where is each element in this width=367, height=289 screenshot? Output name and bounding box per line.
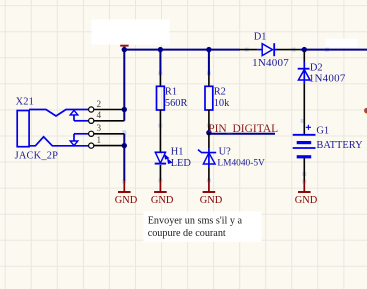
svg-text:560R: 560R [165, 98, 188, 109]
diode D1 left pin stub [257, 49, 262, 51]
svg-text:coupure de courant: coupure de courant [148, 228, 226, 239]
pin 3 wire [94, 133, 125, 135]
resistor R2 body [205, 86, 213, 110]
ground GND (battery) wire to symbol [303, 181, 305, 193]
ground GND (U?) wire to symbol [208, 181, 210, 193]
battery G1 plate long 1 [293, 134, 316, 136]
white erased rectangle top-right [326, 39, 358, 48]
svg-text:Envoyer un sms s'il y a: Envoyer un sms s'il y a [148, 215, 243, 226]
note white background [144, 212, 262, 243]
U? bottom pin [208, 168, 210, 181]
resistor R1 body [157, 86, 165, 110]
diode D2 body (pointing up) [298, 70, 310, 80]
ground GND (U?) bar [203, 191, 216, 193]
svg-text:3: 3 [97, 123, 102, 133]
junction C (rail/R2) [206, 47, 211, 52]
no-ERC red bar on node [120, 45, 128, 47]
wire: +V rail horizontal y=49.6 [123, 49, 367, 51]
svg-text:1: 1 [97, 135, 102, 145]
battery G1 plate short 2 [297, 155, 312, 158]
svg-text:PIN_DIGITAL: PIN_DIGITAL [208, 123, 278, 135]
wire: vertical jack net B x=124.3 [123, 134, 125, 181]
svg-text:GND: GND [151, 195, 174, 206]
wire stub red-bar to junction [123, 47, 125, 50]
wire R1 to LED [159, 110, 161, 152]
battery G1 plate long 2 [293, 147, 316, 149]
junction PIN_DIGITAL node [206, 130, 211, 135]
svg-text:R1: R1 [165, 87, 177, 98]
connector X21 body [17, 111, 29, 147]
svg-text:LM4040-5V: LM4040-5V [217, 159, 265, 169]
diode D2 top pin stub [303, 62, 305, 69]
wire: vertical jack net A x=124.3 [123, 50, 125, 121]
wire junction to U? [208, 133, 210, 149]
wire battery to GND [303, 158, 305, 180]
LED H1 symbol [155, 152, 166, 163]
pin 1 circle [89, 143, 94, 148]
svg-text:R2: R2 [214, 87, 226, 98]
ground GND (battery) bar [298, 191, 311, 193]
pin 1 wire [94, 145, 125, 147]
jack top contact polyline [29, 110, 88, 117]
pin 4 wire [94, 120, 125, 122]
svg-text:D1: D1 [254, 31, 267, 42]
resistor R2 wire from rail [208, 50, 210, 75]
diode D2 center stem [303, 70, 305, 84]
wire R2 to junction [208, 110, 210, 133]
diode D2 cathode bar [298, 68, 310, 70]
svg-text:X21: X21 [16, 96, 34, 107]
pin hotspot markers (pale) [122, 48, 329, 184]
ground GND (LED) bar [154, 191, 167, 193]
diode D1 body [262, 44, 272, 56]
diode D1 cathode bar [273, 43, 275, 56]
ground GND (LED) wire to symbol [159, 181, 161, 193]
svg-text:LED: LED [171, 158, 192, 169]
shunt reference U? symbol (zener) [198, 148, 216, 168]
jack upper switch arrow (pin 4) [70, 110, 78, 115]
svg-text:10k: 10k [214, 98, 230, 109]
pin 4 circle [89, 118, 94, 123]
junction A (rail/jack) [122, 47, 127, 52]
pin 2 wire [94, 109, 125, 111]
jack bottom contact polyline [29, 137, 88, 146]
junction B (rail/R1) [158, 47, 163, 52]
svg-text:BATTERY: BATTERY [316, 140, 363, 151]
svg-text:H1: H1 [171, 147, 184, 158]
ground GND (jack) wire to symbol [123, 181, 125, 193]
svg-text:GND: GND [295, 195, 318, 206]
battery G1 plus sign [306, 125, 311, 130]
svg-text:2: 2 [97, 99, 102, 109]
resistor R1 top pin [159, 75, 161, 87]
wire D2 to battery [303, 84, 305, 134]
jack lower switch arrow (pin 3) [74, 133, 88, 135]
svg-text:4: 4 [97, 110, 102, 120]
svg-text:JACK_2P: JACK_2P [15, 151, 59, 162]
svg-text:GND: GND [200, 195, 223, 206]
svg-text:1N4007: 1N4007 [252, 57, 289, 69]
wire rail junction to D2 [303, 52, 305, 62]
LED H1 light arrows [164, 154, 173, 164]
svg-text:GND: GND [115, 195, 138, 206]
junction D (rail/D2) [302, 47, 307, 52]
svg-text:1N4007: 1N4007 [309, 73, 346, 85]
clipped marker at right edge [364, 108, 367, 114]
junction pin1 [122, 143, 127, 148]
svg-text:U?: U? [219, 146, 232, 157]
pin 2 circle [89, 107, 94, 112]
svg-text:G1: G1 [316, 126, 329, 137]
battery G1 plate short 1 [297, 141, 312, 144]
white erased rectangle top-left [92, 20, 170, 45]
wire net label stub [209, 133, 275, 135]
ground GND (jack) bar [118, 191, 131, 193]
LED bottom pin [159, 165, 161, 181]
pin 3 circle [89, 131, 94, 136]
junction pin2 [122, 107, 127, 112]
diode D1 right pin stub [274, 49, 277, 51]
resistor R2 top pin [208, 75, 210, 87]
resistor R1 wire from rail [159, 50, 161, 75]
